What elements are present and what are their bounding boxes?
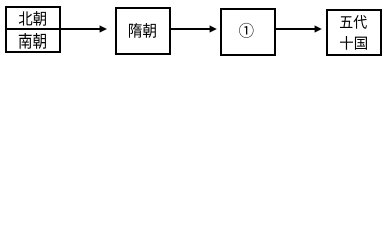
box: Northern/Southern dynasties (split) [6,7,60,52]
box: Five Dynasties and Ten Kingdoms [327,10,381,55]
box: Sui dynasty [116,8,170,54]
arrow 1 [61,28,101,30]
text 北朝 [19,11,46,26]
text 隋朝 [129,23,156,38]
text 五代 [340,15,367,29]
text 十国 [340,36,367,50]
box: circled 1 placeholder [221,9,275,55]
text 南朝 [19,33,46,49]
text ① (circled one) [239,23,253,38]
divider between 北朝 and 南朝 [5,28,61,30]
arrow 2 [171,28,211,30]
arrow 3 [276,28,316,30]
